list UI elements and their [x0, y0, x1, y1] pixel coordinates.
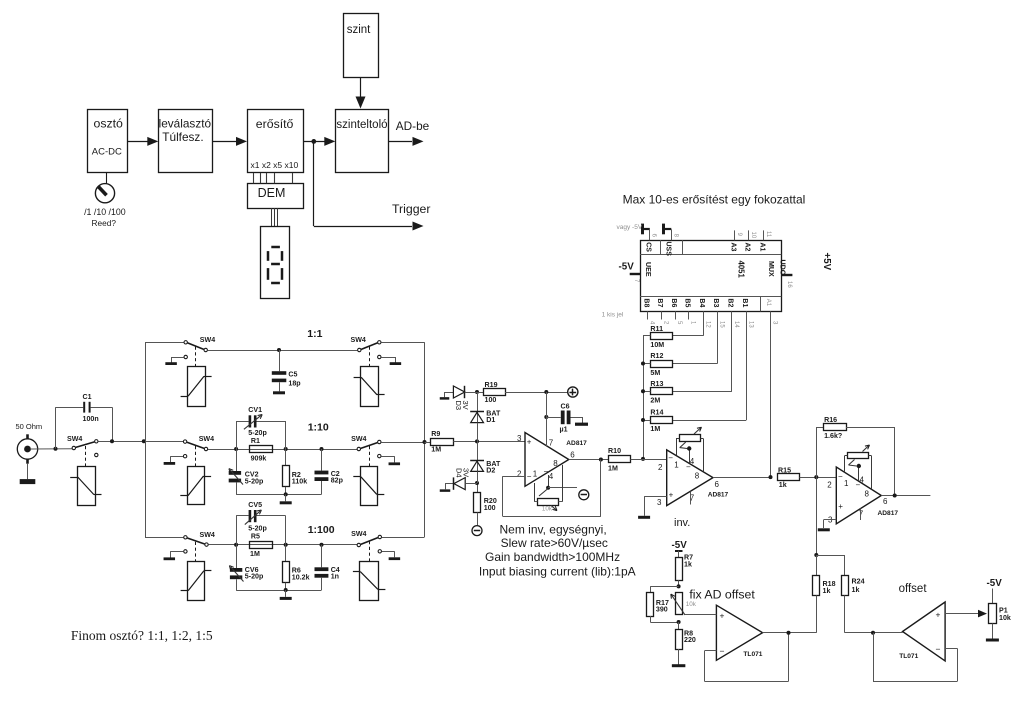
svg-text:11: 11 — [765, 231, 771, 238]
dial knob /1 /10 /100 Reed — [84, 184, 126, 228]
op-amp U3 AD817 inverting — [657, 450, 729, 507]
wires DEM to display (3 lines) — [272, 208, 278, 226]
svg-text:fix AD offset: fix AD offset — [689, 588, 755, 602]
svg-text:R15: R15 — [778, 467, 791, 475]
svg-text:+: + — [527, 438, 532, 447]
pin USS with jumper — [664, 224, 679, 241]
svg-text:C1: C1 — [83, 393, 92, 401]
wire pin7 stub U4 — [860, 509, 862, 521]
op-amp U1 AD817 non-inverting buffer — [517, 433, 587, 487]
resistor R18 1k — [813, 555, 836, 633]
text AD817 buffer notes — [479, 523, 636, 579]
wire R19 to plus supply — [505, 390, 568, 394]
svg-text:10k: 10k — [999, 614, 1011, 622]
svg-text:Reed?: Reed? — [92, 218, 117, 228]
text Finom oszto — [71, 628, 213, 643]
svg-text:SW4: SW4 — [200, 336, 215, 344]
svg-text:A1: A1 — [758, 243, 765, 252]
wire row3 right switch to bus — [382, 537, 425, 539]
op-amp U5 TL071 fix offset buffer — [716, 605, 762, 660]
wire bus to row3 left switch — [145, 537, 183, 539]
svg-text:4: 4 — [690, 457, 695, 466]
ground hook row1 left — [165, 357, 183, 364]
svg-text:−: − — [720, 646, 725, 656]
svg-text:B8: B8 — [643, 298, 650, 307]
svg-text:5-20p: 5-20p — [248, 525, 267, 533]
switch SW4 row1 right — [351, 336, 381, 359]
resistor R1 909k — [250, 437, 273, 463]
capacitor CV5 5-20p trimmer — [236, 501, 286, 545]
svg-text:R1: R1 — [251, 437, 260, 445]
svg-text:UEE: UEE — [644, 262, 652, 277]
wire protection rail vertical — [475, 390, 479, 492]
potentiometer P1 10k — [989, 589, 1011, 624]
wire node R15 down to R18 R24 — [814, 477, 845, 557]
switch SW4 input — [67, 435, 98, 457]
svg-text:1:1: 1:1 — [307, 328, 322, 340]
ground inv plus input — [638, 497, 667, 518]
svg-text:+: + — [838, 502, 843, 511]
wire U4 output — [881, 494, 930, 498]
svg-text:Max 10-es erősítést egy fokoza: Max 10-es erősítést egy fokozattal — [623, 192, 806, 206]
resistor R6 10.2k — [283, 545, 310, 590]
resistor R17 390 parallel — [647, 586, 679, 622]
svg-text:3V: 3V — [462, 468, 471, 477]
ground hook row2 right — [381, 456, 400, 464]
wire dashed row1 left switch to relay — [195, 347, 197, 367]
svg-text:3: 3 — [657, 498, 662, 507]
svg-text:+: + — [669, 491, 674, 500]
svg-text:−: − — [936, 644, 941, 654]
svg-text:Nem inv, egységnyi,: Nem inv, egységnyi, — [500, 523, 607, 537]
wire arrow oszto to levalaszto — [128, 137, 159, 146]
wire U3 output to R15 — [713, 475, 773, 479]
block szinteltolo (level shifter) — [336, 110, 389, 173]
svg-text:D1: D1 — [486, 416, 495, 424]
svg-text:390: 390 — [656, 606, 668, 614]
svg-text:SW4: SW4 — [200, 531, 215, 539]
wire Trigger branch — [314, 141, 431, 230]
op-amp U4 AD817 output stage — [827, 467, 898, 525]
pin CS with jumper to -5V — [617, 224, 657, 241]
svg-text:1M: 1M — [608, 464, 618, 472]
capacitor C2 82p — [315, 449, 344, 494]
wire dashed row2 right switch to relay — [369, 446, 371, 466]
resistor R7 1k — [676, 554, 694, 589]
svg-text:3: 3 — [517, 434, 522, 443]
switch SW4 row2 left — [183, 435, 214, 458]
svg-text:2M: 2M — [650, 397, 660, 405]
pins B8-B5 stubs unconnected — [648, 311, 696, 325]
wire R24 to U6 output — [845, 631, 903, 635]
connector 50 Ohm BNC input — [16, 422, 43, 464]
label -5V supply for offset chain — [672, 540, 688, 558]
ground hook row3 right — [382, 551, 400, 558]
block szint (level set) — [344, 14, 379, 78]
wire U5 feedback loop — [705, 633, 789, 682]
wire U6 feedback loop — [873, 633, 958, 682]
wire erosito output with junction — [304, 137, 336, 146]
ground U4 plus input — [818, 520, 837, 530]
resistor R2 110k — [283, 449, 308, 494]
svg-text:5-20p: 5-20p — [245, 573, 264, 581]
svg-text:+5V: +5V — [821, 253, 832, 271]
svg-text:909k: 909k — [251, 455, 267, 463]
svg-text:7: 7 — [549, 438, 554, 447]
wire U5 output to R18 — [763, 631, 817, 635]
capacitor C6 u1 decoupling — [544, 392, 588, 433]
svg-text:szinteltoló: szinteltoló — [336, 119, 387, 131]
capacitor C5 18p — [272, 350, 301, 393]
svg-text:CS: CS — [645, 242, 652, 252]
switch SW4 row1 left — [184, 336, 215, 359]
resistor R13 2M — [650, 380, 672, 405]
wire arrow szint to szinteltolo — [356, 77, 366, 109]
svg-text:1: 1 — [674, 460, 679, 469]
svg-text:1n: 1n — [331, 573, 339, 581]
svg-text:Input biasing current (lib):1p: Input biasing current (lib):1pA — [479, 564, 636, 578]
svg-text:B6: B6 — [670, 298, 677, 307]
wire row2 right switch to bus junction — [381, 440, 426, 444]
wire pin7 supply into U1 — [546, 392, 548, 447]
ground hook D4 — [440, 483, 454, 491]
svg-text:AD817: AD817 — [708, 492, 729, 499]
trimmer offset null U4 — [845, 443, 872, 489]
svg-text:1: 1 — [844, 479, 849, 488]
wire row2 bottom rail with ground — [236, 492, 321, 502]
pin UDO output right — [781, 275, 792, 288]
resistor R24 1k — [842, 555, 865, 633]
wire dashed input switch to relay — [85, 446, 87, 467]
diode D1 BAT schottky — [470, 392, 501, 441]
resistor R8 220 — [676, 622, 696, 665]
svg-text:-5V: -5V — [672, 540, 688, 551]
svg-text:100: 100 — [484, 504, 496, 512]
wire bus to row1 left switch — [145, 342, 184, 344]
label -5V for P1 — [987, 578, 1003, 589]
wire R10 to inv input — [631, 459, 667, 461]
svg-text:5M: 5M — [650, 369, 660, 377]
svg-text:SW4: SW4 — [199, 435, 214, 443]
wire BNC to input switch — [31, 447, 72, 451]
svg-text:110k: 110k — [292, 478, 307, 486]
relay coil row1 left — [181, 367, 212, 407]
pin UEE with -5V — [619, 261, 641, 283]
svg-text:6: 6 — [715, 480, 720, 489]
svg-text:C6: C6 — [561, 403, 570, 411]
capacitor CV1 5-20p trimmer — [236, 406, 286, 449]
svg-text:R24: R24 — [852, 578, 865, 586]
resistor R9 1M — [425, 430, 454, 453]
svg-text:USS: USS — [665, 242, 672, 257]
svg-text:B3: B3 — [712, 298, 719, 307]
wire row3 bottom rail with ground — [236, 588, 321, 598]
svg-text:18p: 18p — [288, 379, 301, 387]
svg-text:100n: 100n — [83, 415, 99, 423]
svg-text:−: − — [544, 467, 549, 476]
svg-text:UDO: UDO — [778, 260, 786, 276]
relay coil row3 left — [181, 562, 212, 601]
svg-text:AD-be: AD-be — [396, 119, 430, 133]
text offset label — [899, 583, 928, 595]
svg-text:AC-DC: AC-DC — [92, 147, 122, 158]
wire arrow levalaszto to erosito — [212, 137, 247, 146]
wire row2 line segments with junctions — [208, 447, 357, 451]
relay coil row1 right — [354, 367, 385, 407]
wire dashed row2 left switch to relay — [195, 446, 197, 466]
svg-text:R19: R19 — [485, 381, 498, 389]
op-amp U6 TL071 offset buffer mirrored — [899, 602, 945, 661]
relay coil row2 left — [180, 467, 211, 505]
trimmer offset null U3 — [676, 426, 704, 472]
svg-text:AD817: AD817 — [566, 440, 587, 447]
svg-text:SW4: SW4 — [351, 336, 366, 344]
svg-text:R14: R14 — [650, 409, 663, 417]
text Max 10-es erosartest — [623, 192, 806, 206]
svg-text:Túlfesz.: Túlfesz. — [162, 130, 203, 144]
block levalaszto / Tulfesz (isolator block) — [159, 110, 213, 173]
svg-text:220: 220 — [684, 636, 696, 644]
svg-text:inv.: inv. — [674, 517, 690, 529]
wire U6 plus input to P1 wiper with arrow — [945, 610, 987, 618]
wire U1 unity feedback loop — [503, 460, 601, 517]
label 1:1 — [307, 328, 322, 340]
svg-text:B4: B4 — [698, 298, 705, 307]
resistor R15 1k — [778, 467, 800, 490]
capacitor C4 1n — [315, 545, 340, 590]
ground hook D3 — [440, 392, 453, 398]
wire arrow AD-be output — [388, 119, 429, 146]
svg-text:x1 x2 x5 x10: x1 x2 x5 x10 — [251, 160, 299, 170]
block oszto (AC-DC divider block) — [88, 110, 128, 173]
svg-text:1M: 1M — [650, 425, 660, 433]
svg-text:-5V: -5V — [619, 261, 635, 272]
svg-text:MUX: MUX — [767, 261, 775, 277]
svg-text:8: 8 — [695, 472, 700, 481]
svg-text:14: 14 — [733, 321, 739, 328]
pin B2 wire to R13 — [672, 311, 739, 391]
resistor R11 10M — [650, 325, 672, 349]
svg-text:13: 13 — [747, 321, 753, 328]
labels 4051 internal — [644, 260, 786, 279]
svg-text:leválasztó: leválasztó — [159, 117, 212, 131]
svg-text:1.6k?: 1.6k? — [824, 432, 842, 440]
svg-text:CV5: CV5 — [248, 501, 262, 509]
svg-text:6: 6 — [883, 497, 888, 506]
text inv label — [674, 517, 690, 529]
wire trimmer wiper to U5 plus input — [685, 614, 716, 616]
svg-text:−: − — [668, 454, 673, 463]
trimmer offset null 10k U1 — [534, 465, 577, 513]
svg-text:4: 4 — [549, 472, 554, 481]
svg-text:CV1: CV1 — [248, 406, 262, 414]
svg-text:Gain bandwidth>100MHz: Gain bandwidth>100MHz — [485, 550, 620, 564]
svg-text:5-20p: 5-20p — [245, 477, 264, 485]
svg-text:B5: B5 — [684, 298, 691, 307]
svg-text:C5: C5 — [288, 371, 297, 379]
diode D4 3V zener — [454, 468, 478, 490]
trimmer 10k fix offset — [669, 593, 697, 625]
svg-text:B7: B7 — [656, 298, 663, 307]
wire right bus vertical — [424, 342, 426, 537]
svg-text:R10: R10 — [608, 447, 621, 455]
wire dashed row3 right switch to relay — [369, 541, 371, 561]
wire input switch to main bus — [98, 439, 146, 443]
wire R15 to U4 node — [800, 475, 837, 479]
svg-text:offset: offset — [899, 583, 928, 595]
symbol circled minus V- near U1 — [579, 490, 589, 500]
wire row1 right switch to bus — [381, 342, 424, 344]
svg-text:2: 2 — [658, 463, 663, 472]
resistor R19 100 — [477, 381, 506, 404]
relay coil row2 right — [353, 467, 384, 506]
svg-text:1 kis jel: 1 kis jel — [602, 311, 624, 318]
ground below P1 — [986, 624, 999, 641]
svg-text:6: 6 — [570, 451, 575, 460]
label 1:10 — [308, 421, 329, 433]
capacitor C1 100n bypass branch — [56, 393, 113, 449]
svg-text:12: 12 — [704, 321, 710, 328]
svg-text:B1: B1 — [741, 298, 748, 307]
diode D2 BAT schottky — [470, 441, 501, 483]
svg-text:−: − — [527, 472, 532, 481]
IC U2 4051 MUX body — [640, 240, 782, 311]
resistor R14 1M — [650, 409, 672, 434]
svg-text:1:10: 1:10 — [308, 421, 329, 433]
svg-text:10: 10 — [750, 232, 756, 239]
label +5V rotated — [821, 253, 832, 271]
wire row3 line segments with junctions — [209, 543, 358, 547]
wire oszto to dial — [106, 173, 108, 184]
wire dashed row1 right switch to relay — [369, 347, 371, 367]
pin B1 wire to R14 — [672, 311, 753, 420]
switch SW4 row3 left — [184, 531, 215, 553]
svg-text:R5: R5 — [251, 533, 260, 541]
svg-text:R13: R13 — [650, 380, 663, 388]
wire left bus vertical — [145, 342, 147, 537]
pin B3 wire to R12 — [672, 311, 724, 363]
wires erosito to DEM (5 control lines) — [254, 173, 293, 183]
svg-text:szint: szint — [347, 24, 371, 36]
pin A output wire down to R15 node — [771, 311, 778, 477]
svg-text:Finom osztó? 1:1, 1:2, 1:5: Finom osztó? 1:1, 1:2, 1:5 — [71, 628, 213, 643]
text fix AD offset — [689, 588, 755, 602]
svg-text:1M: 1M — [250, 550, 260, 558]
symbol circled minus V- below R20 — [472, 526, 482, 536]
svg-text:1k: 1k — [823, 587, 831, 595]
resistor R16 1.6k feedback — [816, 416, 894, 495]
block DEM decoder — [248, 184, 304, 209]
svg-text:R12: R12 — [650, 352, 663, 360]
svg-text:1k: 1k — [779, 481, 787, 489]
svg-text:+: + — [720, 611, 725, 621]
resistor R10 1M — [608, 447, 631, 472]
ground BNC shield — [20, 464, 36, 484]
svg-text:Slew rate>60V/µsec: Slew rate>60V/µsec — [501, 536, 608, 550]
svg-text:D2: D2 — [486, 466, 495, 474]
wire gain ladder bus — [641, 336, 650, 461]
svg-text:-5V: -5V — [987, 578, 1003, 589]
svg-text:R11: R11 — [650, 325, 663, 333]
svg-text:A1: A1 — [765, 299, 771, 307]
resistor R5 1M — [250, 533, 273, 558]
svg-text:1k: 1k — [852, 586, 860, 594]
svg-text:R16: R16 — [824, 416, 837, 424]
svg-text:8: 8 — [865, 489, 870, 498]
pin labels 4051 top strip — [645, 242, 766, 257]
relay coil K-in — [70, 467, 101, 506]
svg-text:A3: A3 — [730, 243, 737, 252]
ground hook row3 left — [164, 551, 184, 558]
svg-text:16: 16 — [786, 281, 792, 288]
switch SW4 row2 right — [351, 435, 381, 458]
svg-text:82p: 82p — [331, 476, 344, 484]
seven segment display — [261, 227, 290, 299]
svg-text:3V: 3V — [461, 401, 470, 410]
wire bus junction to row2 left switch — [145, 441, 184, 443]
svg-text:1M: 1M — [431, 445, 441, 453]
ground hook row1 right — [381, 357, 401, 364]
symbol circled plus V+ — [568, 387, 578, 397]
svg-text:TL071: TL071 — [899, 653, 918, 660]
svg-text:DEM: DEM — [258, 186, 286, 200]
wire row1 line left segment — [208, 348, 358, 352]
svg-text:10k: 10k — [686, 601, 697, 608]
svg-text:−: − — [838, 472, 843, 481]
wire U1 output with junction — [569, 458, 608, 462]
svg-text:2: 2 — [827, 480, 832, 489]
ground hook row2 left — [164, 456, 183, 463]
pin B4 wire to R11 — [672, 311, 710, 335]
capacitor CV6 5-20p trimmer shunt — [228, 545, 264, 590]
svg-text:10k: 10k — [542, 506, 553, 513]
text 1 kis jel — [602, 311, 624, 318]
svg-text:TL071: TL071 — [743, 651, 762, 658]
block erosito (amplifier x1 x2 x5 x10) — [248, 110, 304, 173]
svg-text:2: 2 — [517, 470, 522, 479]
svg-text:SW4: SW4 — [351, 530, 366, 538]
svg-text:SW4: SW4 — [351, 435, 366, 443]
svg-text:7: 7 — [859, 509, 864, 518]
resistor R20 100 — [474, 493, 497, 526]
relay coil row3 right — [353, 562, 386, 601]
diode D3 3V zener — [453, 386, 477, 410]
svg-text:SW4: SW4 — [67, 435, 82, 443]
svg-text:8: 8 — [553, 459, 558, 468]
svg-text:AD817: AD817 — [878, 510, 899, 517]
capacitor CV2 5-20p trimmer shunt — [227, 449, 264, 494]
label 1:100 — [308, 524, 335, 536]
resistor R12 5M — [650, 352, 672, 377]
svg-text:1k: 1k — [684, 560, 692, 568]
svg-text:10.2k: 10.2k — [292, 574, 310, 582]
wire dashed row3 left switch to relay — [195, 542, 197, 562]
svg-text:erősítő: erősítő — [256, 117, 294, 131]
wire pin7 stub U3 — [690, 492, 692, 505]
svg-text:4051: 4051 — [737, 261, 746, 279]
svg-text:µ1: µ1 — [560, 425, 568, 433]
svg-text:vagy -5V: vagy -5V — [617, 224, 643, 231]
ground below R8 — [672, 664, 686, 667]
wire R9 to buffer input — [453, 439, 525, 443]
svg-text:osztó: osztó — [94, 117, 124, 131]
pins A3 A2 A1 stubs — [735, 230, 771, 240]
svg-text:Trigger: Trigger — [392, 202, 431, 216]
svg-text:B2: B2 — [727, 298, 734, 307]
svg-text:4: 4 — [860, 476, 865, 485]
svg-text:50 Ohm: 50 Ohm — [16, 422, 43, 431]
svg-text:+: + — [936, 609, 941, 619]
